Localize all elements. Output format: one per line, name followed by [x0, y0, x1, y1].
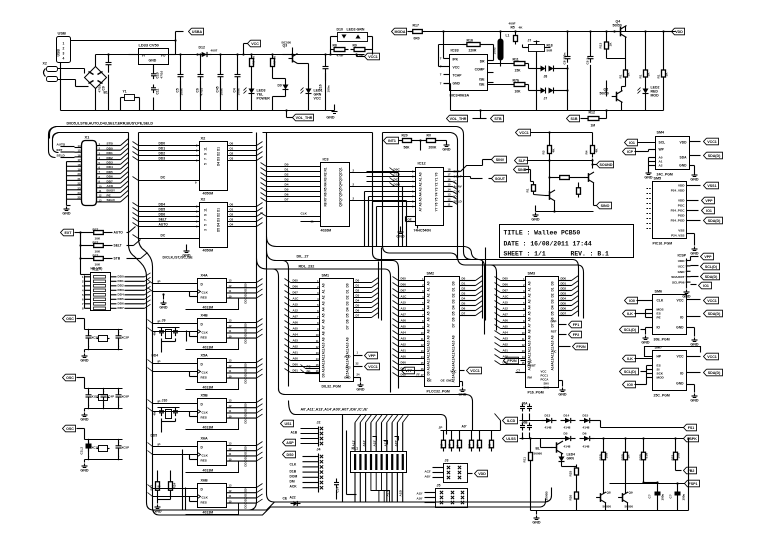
svg-text:DD3: DD3	[107, 161, 113, 165]
svg-text:A0: A0	[419, 172, 423, 176]
svg-text:ILK: ILK	[627, 312, 633, 316]
svg-text:D4: D4	[346, 307, 350, 311]
svg-text:DD6: DD6	[118, 302, 124, 306]
svg-text:A7: A7	[528, 323, 532, 327]
svg-text:470F: 470F	[337, 54, 344, 58]
svg-text:D7: D7	[452, 323, 456, 327]
svg-text:D5: D5	[217, 228, 221, 232]
svg-text:50050: 50050	[600, 92, 609, 96]
svg-text:A12: A12	[427, 352, 431, 358]
svg-text:2: 2	[63, 47, 65, 51]
svg-text:R2B: R2B	[621, 454, 625, 461]
svg-text:LED2-GRN: LED2-GRN	[347, 28, 365, 32]
svg-text:A15': A15'	[417, 492, 423, 496]
svg-text:A02: A02	[293, 345, 299, 349]
svg-text:DD0: DD0	[244, 487, 248, 493]
svg-text:RM: RM	[528, 376, 533, 380]
svg-text:SOUND: SOUND	[600, 163, 613, 167]
svg-text:CLK: CLK	[202, 454, 209, 458]
svg-text:O1: O1	[230, 147, 234, 151]
svg-text:A10: A10	[427, 340, 431, 346]
svg-text:OSC: OSC	[66, 317, 74, 321]
svg-text:9: 9	[204, 153, 208, 155]
svg-text:30E_PGM: 30E_PGM	[654, 338, 670, 342]
svg-text:D1B: D1B	[290, 470, 297, 474]
svg-text:DD7: DD7	[561, 312, 567, 316]
svg-text:X2: X2	[201, 136, 207, 141]
svg-text:VCC1: VCC1	[519, 131, 529, 135]
svg-text:DD3: DD3	[244, 337, 248, 343]
svg-text:VDD: VDD	[678, 184, 685, 188]
svg-text:D3: D3	[462, 292, 466, 296]
svg-text:D3: D3	[285, 178, 289, 182]
svg-text:RST: RST	[551, 330, 557, 334]
svg-text:BUSY: BUSY	[107, 189, 117, 193]
svg-text:A6: A6	[419, 202, 423, 206]
svg-text:D4: D4	[356, 299, 360, 303]
svg-text:A05: A05	[293, 327, 299, 331]
svg-text:R11: R11	[513, 58, 519, 62]
svg-text:SINO: SINO	[601, 204, 610, 208]
svg-text:4148: 4148	[564, 426, 571, 430]
svg-text:A15: A15	[401, 301, 407, 305]
svg-text:DD0: DD0	[561, 277, 567, 281]
svg-text:GND: GND	[159, 306, 168, 310]
svg-text:CE: CE	[428, 379, 432, 383]
svg-text:SLP: SLP	[519, 159, 527, 163]
svg-text:IC3: IC3	[323, 157, 330, 162]
svg-text:GND: GND	[531, 218, 540, 222]
svg-text:FP2N: FP2N	[507, 359, 517, 363]
svg-text:GND: GND	[458, 393, 467, 397]
svg-text:VCC1: VCC1	[707, 299, 717, 303]
svg-text:LD33 CV50: LD33 CV50	[139, 43, 159, 48]
svg-text:D3: D3	[346, 301, 350, 305]
svg-text:A9: A9	[452, 335, 456, 339]
svg-text:SDA(D): SDA(D)	[708, 219, 721, 223]
svg-text:VCC: VCC	[453, 66, 461, 70]
svg-text:SDA(D): SDA(D)	[708, 154, 721, 158]
svg-text:3: 3	[204, 229, 208, 231]
svg-text:C7: C7	[517, 369, 521, 373]
svg-text:R1: R1	[639, 74, 643, 78]
svg-text:D1: D1	[285, 168, 289, 172]
svg-text:DD3: DD3	[118, 288, 124, 292]
svg-text:DD2: DD2	[118, 284, 124, 288]
svg-text:D01: D01	[293, 369, 299, 373]
svg-text:IP: IP	[158, 400, 161, 404]
svg-text:MC34063A: MC34063A	[450, 93, 470, 98]
svg-text:VPP: VPP	[405, 369, 413, 373]
svg-text:DD5: DD5	[118, 297, 124, 301]
svg-text:X1: X1	[85, 135, 91, 140]
svg-text:D0H: D0H	[394, 183, 401, 187]
svg-text:4: 4	[63, 57, 65, 61]
svg-text:A13: A13	[427, 358, 431, 364]
svg-text:A6: A6	[322, 319, 326, 323]
svg-text:ULSS: ULSS	[506, 437, 516, 441]
svg-text:74HC540N: 74HC540N	[414, 229, 432, 233]
svg-text:SHEET : 1/1: SHEET : 1/1	[504, 251, 546, 258]
svg-text:CLK: CLK	[202, 371, 209, 375]
svg-text:UPP: UPP	[551, 320, 557, 324]
svg-text:SELD: SELD	[107, 198, 116, 202]
svg-text:SELD: SELD	[57, 154, 66, 158]
svg-text:SDA(D): SDA(D)	[708, 371, 721, 375]
svg-text:GND: GND	[153, 510, 162, 514]
svg-text:D5: D5	[564, 432, 568, 436]
svg-text:DD6: DD6	[107, 175, 113, 179]
svg-text:DD2: DD2	[107, 156, 113, 160]
svg-text:A8: A8	[528, 329, 532, 333]
svg-text:5: 5	[204, 224, 208, 226]
svg-text:A1: A1	[427, 287, 431, 291]
svg-text:Q5: Q5	[339, 187, 343, 191]
svg-text:RDL_232: RDL_232	[299, 265, 315, 269]
svg-text:SM6: SM6	[655, 290, 663, 294]
svg-text:A14': A14'	[362, 440, 366, 447]
svg-text:VCC: VCC	[450, 370, 457, 374]
svg-text:IO0: IO0	[629, 299, 635, 303]
svg-text:1M: 1M	[591, 124, 596, 128]
svg-text:22: 22	[78, 182, 81, 186]
svg-text:D6: D6	[356, 309, 360, 313]
svg-text:D6: D6	[285, 193, 289, 197]
svg-text:VCC1: VCC1	[707, 140, 717, 144]
svg-text:D13: D13	[545, 414, 551, 418]
svg-text:A1B: A1B	[399, 490, 403, 497]
svg-text:R4: R4	[585, 150, 589, 154]
svg-text:4148: 4148	[545, 426, 552, 430]
svg-text:7: 7	[440, 82, 442, 86]
svg-text:R6: R6	[324, 192, 328, 196]
svg-text:D4: D4	[462, 297, 466, 301]
svg-text:A1: A1	[528, 287, 532, 291]
svg-text:JP: JP	[439, 426, 443, 430]
svg-text:R3B: R3B	[639, 454, 643, 461]
svg-text:100u: 100u	[493, 47, 497, 54]
svg-text:A0: A0	[427, 281, 431, 285]
svg-text:CLK: CLK	[301, 212, 308, 216]
svg-text:VPP: VPP	[368, 354, 376, 358]
svg-text:A3: A3	[427, 299, 431, 303]
svg-text:A14: A14	[551, 364, 555, 370]
svg-text:A06: A06	[503, 319, 509, 323]
svg-text:POWER: POWER	[257, 97, 271, 101]
svg-text:D3: D3	[217, 218, 221, 222]
svg-text:D0: D0	[285, 163, 289, 167]
svg-text:SM5: SM5	[654, 177, 662, 181]
svg-text:USBA: USBA	[192, 30, 203, 34]
svg-text:4013M: 4013M	[203, 386, 214, 390]
svg-text:13: 13	[448, 193, 451, 197]
svg-text:15: 15	[448, 183, 451, 187]
svg-text:A15: A15	[293, 303, 299, 307]
svg-text:4148: 4148	[583, 445, 590, 449]
svg-text:R1: R1	[526, 188, 530, 192]
svg-text:R6 1K: R6 1K	[252, 55, 256, 65]
svg-text:XC6P: XC6P	[122, 395, 130, 399]
svg-text:Q2: Q2	[339, 172, 343, 176]
svg-text:J8: J8	[544, 75, 548, 79]
svg-text:CC0: CC0	[394, 173, 400, 177]
svg-text:A11: A11	[346, 348, 350, 354]
svg-text:4050M: 4050M	[203, 249, 214, 253]
svg-text:P24_PGC: P24_PGC	[671, 209, 686, 213]
svg-text:GND: GND	[80, 469, 89, 473]
svg-text:IPK: IPK	[453, 58, 459, 62]
svg-text:DD0: DD0	[244, 362, 248, 368]
svg-text:J10: J10	[162, 399, 168, 403]
svg-text:D05: D05	[401, 277, 407, 281]
svg-text:A07: A07	[293, 315, 299, 319]
svg-text:X4B: X4B	[201, 314, 209, 318]
svg-text:L1: L1	[506, 34, 510, 38]
svg-text:D6: D6	[452, 317, 456, 321]
svg-text:4026M: 4026M	[321, 229, 332, 233]
svg-text:D4: D4	[217, 223, 221, 227]
svg-text:DD2: DD2	[244, 332, 248, 338]
svg-text:R5: R5	[324, 187, 328, 191]
svg-text:STB: STB	[114, 257, 121, 261]
svg-text:D7: D7	[346, 325, 350, 329]
svg-text:MOD: MOD	[651, 94, 660, 98]
svg-text:GND: GND	[396, 235, 405, 239]
svg-text:VOL_THR: VOL_THR	[296, 116, 313, 120]
svg-text:A05: A05	[401, 325, 407, 329]
svg-text:D4: D4	[285, 183, 289, 187]
svg-text:A1C: A1C	[401, 295, 408, 299]
svg-text:A11: A11	[452, 346, 456, 352]
svg-text:A13': A13'	[352, 440, 356, 447]
svg-text:D4: D4	[551, 305, 555, 309]
svg-text:R27: R27	[93, 254, 99, 258]
svg-text:A13: A13	[551, 358, 555, 364]
svg-text:D06: D06	[503, 283, 509, 287]
svg-text:SDA(D): SDA(D)	[708, 312, 721, 316]
svg-text:WP: WP	[659, 148, 665, 152]
svg-text:4148: 4148	[583, 426, 590, 430]
svg-text:OSC: OSC	[66, 376, 74, 380]
svg-text:DD1: DD1	[244, 327, 248, 333]
svg-text:A11: A11	[427, 346, 431, 352]
svg-text:VSS1: VSS1	[707, 184, 716, 188]
svg-text:7: 7	[204, 158, 208, 160]
svg-text:GND: GND	[641, 341, 650, 345]
svg-text:D06: D06	[293, 285, 299, 289]
svg-text:100n: 100n	[220, 88, 224, 95]
svg-text:47/16: 47/16	[200, 87, 204, 95]
svg-text:R17: R17	[413, 24, 419, 28]
svg-text:A8: A8	[427, 329, 431, 333]
svg-text:D6: D6	[346, 319, 350, 323]
svg-text:UCC: UCC	[678, 264, 685, 268]
svg-text:A13: A13	[452, 358, 456, 364]
svg-text:A7: A7	[419, 207, 423, 211]
svg-text:Q1: Q1	[339, 167, 343, 171]
svg-text:C16: C16	[319, 84, 323, 90]
svg-text:17: 17	[448, 173, 451, 177]
svg-text:ICP: ICP	[627, 150, 634, 154]
svg-text:A2: A2	[528, 293, 532, 297]
svg-text:R1: R1	[324, 167, 328, 171]
svg-text:HP (JB): HP (JB)	[91, 267, 103, 271]
svg-text:PV/BT: PV/BT	[528, 364, 537, 368]
svg-text:DD5: DD5	[159, 208, 166, 212]
svg-text:DD2: DD2	[244, 412, 248, 418]
svg-text:R5: R5	[511, 26, 515, 30]
svg-text:DD7: DD7	[118, 306, 124, 310]
svg-text:GND: GND	[678, 270, 686, 274]
svg-text:USB: USB	[58, 31, 67, 36]
svg-text:SM3: SM3	[528, 272, 536, 276]
svg-text:ACK: ACK	[107, 184, 114, 188]
svg-text:VCC1: VCC1	[707, 355, 717, 359]
svg-text:DD3: DD3	[244, 377, 248, 383]
svg-text:C11: C11	[156, 88, 160, 94]
svg-text:4013M: 4013M	[203, 426, 214, 430]
svg-text:DC: DC	[161, 234, 166, 238]
svg-text:VCC: VCC	[251, 42, 259, 46]
svg-text:FS1: FS1	[688, 426, 695, 430]
svg-text:VPP: VPP	[704, 255, 712, 259]
svg-text:VDD: VDD	[675, 30, 683, 34]
svg-text:SM4: SM4	[657, 131, 666, 135]
svg-text:A22: A22	[290, 496, 296, 500]
svg-text:DD1: DD1	[244, 407, 248, 413]
svg-text:Y7: Y7	[435, 207, 439, 211]
svg-text:SOUT: SOUT	[495, 177, 506, 181]
svg-text:DD4: DD4	[561, 297, 567, 301]
svg-text:SDA/D0T: SDA/D0T	[671, 275, 684, 279]
svg-text:D5: D5	[462, 302, 466, 306]
svg-text:C1L2: C1L2	[80, 447, 84, 455]
svg-text:IC33: IC33	[451, 48, 460, 53]
svg-text:14: 14	[78, 144, 81, 148]
svg-text:0R0: 0R0	[414, 37, 420, 41]
svg-text:R7b: R7b	[513, 79, 520, 83]
svg-text:DD6: DD6	[159, 213, 166, 217]
svg-text:O0: O0	[230, 203, 234, 207]
svg-text:A0: A0	[528, 281, 532, 285]
svg-text:4M: 4M	[153, 331, 157, 336]
svg-text:D2: D2	[462, 287, 466, 291]
svg-text:FF: FF	[417, 373, 421, 377]
svg-text:GND: GND	[690, 343, 699, 347]
svg-text:DD0: DD0	[107, 146, 113, 150]
svg-text:23: 23	[78, 186, 81, 190]
svg-text:GND: GND	[676, 382, 684, 386]
svg-text:P16_PGM: P16_PGM	[528, 391, 544, 395]
svg-text:200K: 200K	[429, 146, 438, 150]
svg-text:A03: A03	[503, 337, 509, 341]
svg-text:DOM: DOM	[290, 475, 298, 479]
svg-text:MOD: MOD	[657, 376, 665, 380]
svg-text:A11: A11	[322, 348, 326, 354]
svg-text:CLK: CLK	[202, 331, 209, 335]
svg-text:DD3: DD3	[244, 417, 248, 423]
svg-text:100u: 100u	[682, 494, 686, 501]
svg-text:A04: A04	[401, 331, 407, 335]
svg-text:O0: O0	[230, 142, 234, 146]
svg-text:Q8: Q8	[607, 491, 611, 495]
svg-text:DD5: DD5	[151, 434, 158, 438]
svg-text:GND: GND	[644, 176, 653, 180]
svg-text:FP2N: FP2N	[576, 345, 586, 349]
svg-text:R18: R18	[547, 44, 553, 48]
svg-text:D1: D1	[551, 287, 555, 291]
svg-text:DD2: DD2	[159, 152, 166, 156]
svg-text:IO1: IO1	[629, 141, 635, 145]
svg-text:J3: J3	[445, 459, 449, 463]
svg-text:O4: O4	[230, 223, 234, 227]
svg-text:7: 7	[204, 219, 208, 221]
svg-text:A1B: A1B	[291, 431, 298, 435]
svg-text:DM: DM	[290, 480, 295, 484]
svg-text:DD1: DD1	[107, 151, 113, 155]
svg-text:X2: X2	[43, 62, 47, 66]
svg-text:CLK: CLK	[202, 411, 209, 415]
svg-text:A10: A10	[528, 340, 532, 346]
svg-text:A4: A4	[419, 192, 423, 196]
svg-text:D22: D22	[448, 443, 452, 448]
svg-text:SHB: SHB	[544, 386, 550, 390]
svg-text:14: 14	[448, 188, 451, 192]
svg-text:A01: A01	[293, 351, 299, 355]
svg-text:A4: A4	[427, 305, 431, 309]
svg-text:R13: R13	[599, 43, 603, 49]
svg-text:GND: GND	[149, 59, 157, 63]
svg-text:SCL: SCL	[659, 141, 666, 145]
svg-text:C6 1u: C6 1u	[586, 56, 590, 65]
svg-text:A03: A03	[293, 339, 299, 343]
svg-text:VI: VI	[142, 54, 145, 58]
svg-text:D12: D12	[199, 46, 205, 50]
svg-text:PLCC32_PGM: PLCC32_PGM	[427, 390, 450, 394]
svg-text:IO: IO	[680, 372, 684, 376]
svg-text:DD1: DD1	[244, 450, 248, 456]
svg-text:7: 7	[440, 57, 442, 61]
svg-text:D2: D2	[217, 213, 221, 217]
svg-text:VCC1: VCC1	[368, 365, 378, 369]
svg-text:IO: IO	[657, 326, 661, 330]
svg-text:A01: A01	[503, 349, 509, 353]
svg-text:D1: D1	[217, 147, 221, 151]
svg-text:Q9: Q9	[629, 491, 633, 495]
svg-text:Q8: Q8	[339, 202, 343, 206]
svg-text:UDD: UDD	[678, 259, 685, 263]
svg-text:SDA: SDA	[680, 156, 688, 160]
svg-text:A04: A04	[503, 331, 509, 335]
svg-text:15K: 15K	[515, 69, 522, 73]
svg-text:12: 12	[99, 194, 102, 198]
svg-text:D1: D1	[356, 284, 360, 288]
svg-text:A13: A13	[322, 360, 326, 366]
svg-text:O1: O1	[230, 208, 234, 212]
svg-text:Y0: Y0	[435, 172, 439, 176]
svg-text:9: 9	[204, 214, 208, 216]
svg-text:TCAP: TCAP	[453, 74, 463, 78]
svg-text:STB: STB	[107, 142, 114, 146]
svg-text:CLK: CLK	[202, 496, 209, 500]
svg-text:25: 25	[78, 196, 81, 200]
svg-text:X6B: X6B	[201, 479, 209, 483]
svg-text:D5: D5	[356, 304, 360, 308]
svg-text:IO: IO	[680, 316, 684, 320]
svg-text:IP: IP	[158, 360, 161, 364]
svg-text:S1B: S1B	[571, 117, 578, 121]
svg-text:19: 19	[78, 168, 81, 172]
